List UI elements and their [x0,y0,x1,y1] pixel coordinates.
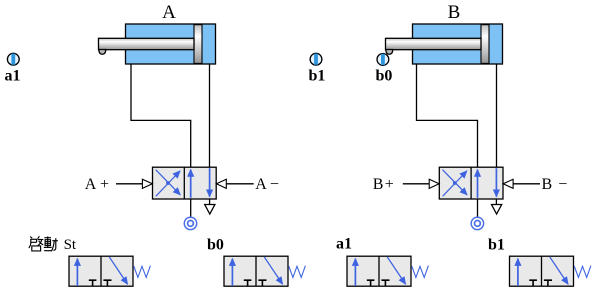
glyph 動 (hand drawn) [44,236,58,251]
valve V2 down arrow [495,168,497,196]
pilot line B+ [403,183,429,185]
label 啓動 St (start valve label) [29,236,77,253]
valve V1 down arrow [209,168,211,196]
valve V1 (5/2 way valve A) [153,167,217,199]
valve S4 (3/2 roller valve b1) [510,256,591,286]
svg-text:A: A [85,176,97,193]
valve S3 (3/2 roller valve a1) [347,256,428,286]
pilot line A- [226,183,253,185]
wire V2 to source [477,199,479,217]
wire V1 to source [190,199,192,217]
svg-text:b0: b0 [207,237,224,254]
source circle V2 (compressed air source) [471,217,483,229]
svg-text:a1: a1 [5,68,21,85]
cylinder A [99,24,216,64]
valve S1 spring W [134,266,151,278]
cylinder B [386,24,503,64]
sensor b0 [377,54,389,66]
valve S1 up arrow [76,259,78,286]
svg-text:St: St [64,237,77,253]
wire A right (cylinder A right port to valve V1) [209,64,211,167]
svg-text:A: A [162,2,176,23]
valve V2 crossed arrows [443,170,468,197]
valve S1 T blocked left [89,280,97,286]
pilot triangle V1 left [142,179,152,188]
svg-text:+: + [100,176,109,193]
wire B right (cylinder B right port to valve V2) [496,64,498,167]
sensor b1 [310,53,322,65]
exhaust V1 (triangle) [205,199,215,214]
wire B left (cylinder B left port to valve V2) [417,64,478,167]
valve S2 (3/2 roller valve b0) [224,256,305,286]
sensor a1 [7,53,19,65]
source circle V1 (compressed air source) [184,217,196,229]
svg-text:B: B [542,176,553,193]
svg-text:A: A [255,176,267,193]
pilot triangle V2 left [429,179,439,188]
svg-text:−: − [558,176,567,193]
svg-text:+: + [385,176,394,193]
valve V1 up arrow [190,170,192,198]
svg-text:b1: b1 [309,68,326,85]
svg-text:−: − [270,176,279,193]
svg-text:B: B [448,2,461,23]
wire A left (cylinder A left port to valve V1) [131,64,191,167]
svg-text:a1: a1 [336,236,352,253]
valve V2 (5/2 way valve B) [439,167,503,199]
pilot line A+ [116,183,142,185]
pilot triangle V1 right [216,179,226,188]
exhaust V2 (triangle) [492,199,502,214]
valve V2 up arrow [477,170,479,198]
valve V1 crossed arrows [156,170,181,197]
svg-text:B: B [373,176,384,193]
svg-text:b1: b1 [488,237,505,254]
valve S1 (3/2 roller valve St) [69,256,150,286]
svg-text:b0: b0 [376,68,393,85]
valve S1 diagonal arrow [109,257,127,284]
pilot line B- [513,183,540,185]
pilot triangle V2 right [503,179,513,188]
valve S1 T blocked right [103,280,111,286]
glyph 啓 (hand drawn) [29,236,43,251]
